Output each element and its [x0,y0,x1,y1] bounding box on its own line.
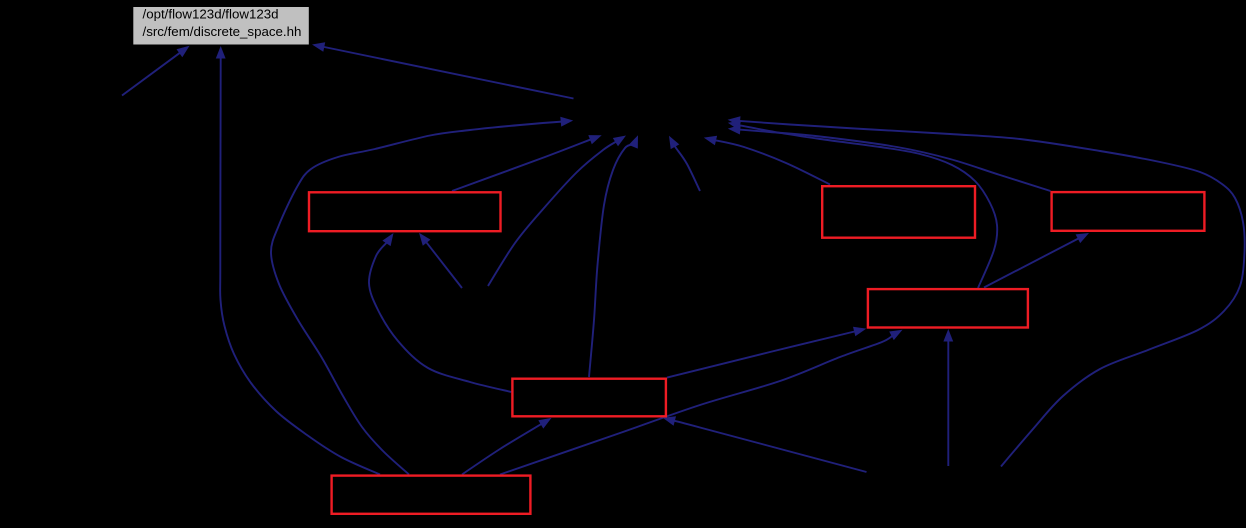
edge box5->box1 [369,233,511,392]
edge B2->box4 [943,329,953,466]
edge box5->box4 [667,327,866,378]
edge V1->center [488,136,626,287]
edge center->root [312,42,574,98]
edge B3->center [728,116,1245,466]
svg-text:/opt/flow123d/flow123d: /opt/flow123d/flow123d [143,7,279,22]
edge box4->box3 [984,233,1089,288]
edge box2->center [704,136,830,185]
edge box4->center [728,121,997,288]
edge box6->root [216,46,380,475]
edge box6->center [271,117,573,475]
edge B1->box5 [663,416,867,472]
node root (gray) [133,7,308,45]
node box3 [1052,192,1205,231]
svg-text:/src/fem/discrete_space.hh: /src/fem/discrete_space.hh [143,24,302,39]
edge M1->center [669,136,700,191]
edge L1->root [122,46,190,96]
node box5 [512,379,666,417]
edge box6->box5 [462,418,552,475]
edge V1->box1 [419,233,462,288]
node box2 [822,186,975,238]
edge box3->center [728,125,1051,191]
edge box5->center [589,135,638,377]
node box6 [332,476,531,514]
node box4 [868,289,1028,327]
node box1 [309,192,501,231]
edge box6->box4 [500,330,903,475]
edge box1->center [452,135,602,191]
